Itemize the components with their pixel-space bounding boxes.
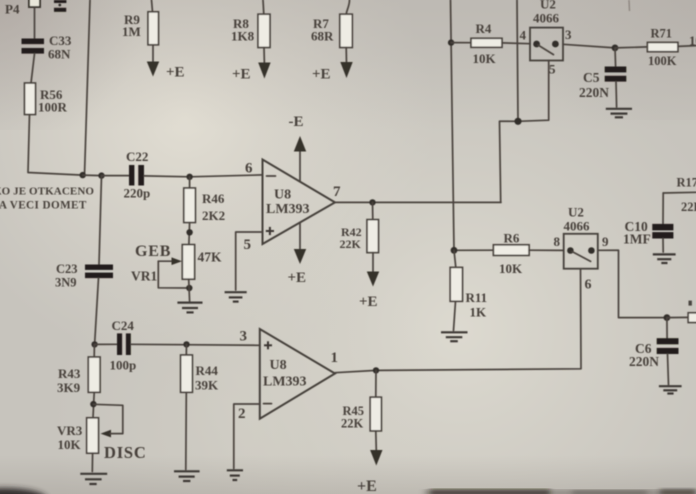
svg-text:22K: 22K xyxy=(340,237,362,251)
svg-text:100R: 100R xyxy=(38,100,68,115)
svg-text:R6: R6 xyxy=(504,231,520,246)
svg-text:LM393: LM393 xyxy=(263,375,307,390)
wire P4 to C33 xyxy=(34,7,36,39)
svg-text:68N: 68N xyxy=(48,47,71,62)
-E arrow above U8a xyxy=(289,114,307,182)
svg-text:C23: C23 xyxy=(56,262,78,276)
resistor R46 xyxy=(189,177,191,188)
svg-text:1MF: 1MF xyxy=(623,232,651,247)
svg-text:4066: 4066 xyxy=(533,11,560,26)
svg-text:10K: 10K xyxy=(499,261,523,276)
node C6 junction xyxy=(664,314,671,321)
capacitor C10 xyxy=(662,193,664,224)
potentiometer VR1 xyxy=(182,245,194,280)
potentiometer VR3 xyxy=(87,418,99,453)
analog switch U2b xyxy=(564,234,598,269)
connector P4 pad xyxy=(29,0,40,7)
+E arrow under R9 xyxy=(147,45,185,81)
svg-text:R4: R4 xyxy=(476,21,492,36)
op-amp U8b minus sign xyxy=(264,403,272,405)
wire C6 to ground xyxy=(668,354,669,385)
node R45 junction xyxy=(373,367,379,373)
svg-text:6: 6 xyxy=(245,161,253,177)
svg-text:1M: 1M xyxy=(122,24,141,39)
resistor R71 xyxy=(647,42,678,51)
resistor R7 xyxy=(346,0,349,14)
wire R11 to ground xyxy=(454,301,456,330)
svg-text:U8: U8 xyxy=(274,188,291,203)
wire node A to node B xyxy=(83,174,102,177)
crystal top-edge glyph xyxy=(54,0,66,12)
wire C10 to ground xyxy=(662,239,664,253)
svg-text:R17: R17 xyxy=(677,176,696,190)
svg-text:GEB: GEB xyxy=(135,243,171,260)
svg-text:U2: U2 xyxy=(568,205,584,220)
partial resistor at right edge xyxy=(688,313,696,323)
wire pin2 to ground xyxy=(234,404,260,469)
svg-text:ZA VECI DOMET: ZA VECI DOMET xyxy=(0,200,87,212)
svg-text:5: 5 xyxy=(549,62,556,77)
svg-text:220p: 220p xyxy=(124,186,151,201)
node R44-top junction xyxy=(183,341,189,347)
svg-text:+E: +E xyxy=(312,67,331,83)
svg-text:C24: C24 xyxy=(112,318,135,333)
wire C24 to op-amp pin3 xyxy=(131,344,260,345)
photo dark band bottom-right xyxy=(424,491,696,494)
+E arrow under R42 xyxy=(359,253,379,310)
wire vertical from top to pin5 node xyxy=(517,0,518,121)
node R46-top junction xyxy=(186,174,192,180)
svg-text:100K: 100K xyxy=(648,54,677,68)
VR1 wiper arrow xyxy=(158,257,189,288)
svg-text:100p: 100p xyxy=(110,358,137,373)
op-amp U8b xyxy=(260,329,335,419)
svg-text:+E: +E xyxy=(359,294,378,310)
svg-text:22K: 22K xyxy=(341,417,364,431)
svg-text:R11: R11 xyxy=(466,290,488,305)
svg-text:1: 1 xyxy=(331,350,339,366)
svg-text:3K9: 3K9 xyxy=(57,380,81,395)
svg-text:P4: P4 xyxy=(5,2,20,17)
svg-text:1K: 1K xyxy=(470,305,488,320)
wire R4 to switch pin4 xyxy=(502,42,530,45)
resistor R8 xyxy=(262,0,265,14)
svg-text:-E: -E xyxy=(289,114,304,130)
svg-text:+E: +E xyxy=(357,478,377,494)
op-amp U8b plus sign xyxy=(264,341,272,349)
ground under C10 xyxy=(653,254,676,263)
ground under C6 xyxy=(659,386,682,393)
svg-text:220N: 220N xyxy=(579,85,609,100)
capacitor C5 xyxy=(614,48,617,67)
svg-text:KO JE OTKACENO: KO JE OTKACENO xyxy=(0,186,94,198)
wire U8a output to corner xyxy=(335,201,501,203)
svg-text:10K: 10K xyxy=(58,437,82,452)
wire VR3 to ground xyxy=(91,453,93,471)
svg-text:39K: 39K xyxy=(195,378,219,393)
svg-text:+E: +E xyxy=(288,270,307,286)
wire R44 to ground xyxy=(185,392,188,469)
svg-text:C5: C5 xyxy=(583,70,600,85)
svg-text:2: 2 xyxy=(238,406,246,422)
svg-text:R43: R43 xyxy=(58,366,81,381)
resistor R56 xyxy=(25,83,36,115)
ground under R11 xyxy=(441,332,468,341)
svg-text:2K2: 2K2 xyxy=(202,208,225,223)
node R46-VR1 junction xyxy=(186,229,192,235)
wire R6 node to R6 xyxy=(454,249,493,251)
VR3 wiper arrow xyxy=(93,404,122,437)
svg-text:VR1: VR1 xyxy=(131,269,157,284)
ground at pin 2 xyxy=(227,470,243,480)
svg-text:3N9: 3N9 xyxy=(55,276,77,290)
capacitor C6 xyxy=(666,318,668,339)
wire C33 to R56 xyxy=(31,54,35,83)
svg-text:DISC: DISC xyxy=(104,443,147,462)
wire R43 to VR3 xyxy=(93,392,94,418)
wire switch pin9 to C6 node xyxy=(598,250,667,317)
svg-text:8: 8 xyxy=(554,234,561,249)
svg-text:R46: R46 xyxy=(202,191,225,206)
node R6-R11 junction xyxy=(451,247,458,254)
node output7 junction xyxy=(369,199,375,205)
photo shadow bottom-left corner xyxy=(0,488,47,494)
svg-text:U8: U8 xyxy=(270,358,287,373)
wire node to R71 xyxy=(615,47,647,48)
node pin5-bus junction xyxy=(514,118,521,125)
capacitor C33 xyxy=(22,39,45,54)
+E arrow below U8a xyxy=(288,223,307,287)
svg-text:LM393: LM393 xyxy=(266,202,310,217)
node C junction xyxy=(91,341,97,347)
svg-text:9: 9 xyxy=(602,234,609,249)
node C5 junction xyxy=(612,45,619,52)
svg-text:22K: 22K xyxy=(681,200,696,214)
partial mark above right edge resistor xyxy=(689,301,692,306)
svg-text:220N: 220N xyxy=(629,354,659,369)
wire R56 to node A xyxy=(28,115,83,176)
wire VR1 to ground xyxy=(188,279,191,301)
svg-text:68R: 68R xyxy=(311,29,334,44)
svg-text:6: 6 xyxy=(585,278,592,293)
wire U8b output to switch pin6 xyxy=(335,269,581,373)
node A junction xyxy=(80,172,86,178)
svg-text:R71: R71 xyxy=(651,27,673,41)
resistor R45 xyxy=(375,370,377,397)
svg-text:5: 5 xyxy=(244,237,252,253)
resistor R9 xyxy=(152,0,153,12)
resistor R44 xyxy=(185,344,187,355)
node R4-left junction xyxy=(448,39,454,45)
wire R6 to switch pin8 xyxy=(529,249,564,251)
+E arrow under R8 xyxy=(232,48,271,83)
svg-text:R44: R44 xyxy=(196,363,219,378)
node VR1 wiper-bottom junction xyxy=(186,285,192,291)
wire C22 to op-amp pin6 xyxy=(144,175,263,177)
resistor R42 xyxy=(372,202,374,219)
ground under VR1 xyxy=(177,303,202,313)
capacitor C23 xyxy=(99,176,102,265)
wire node C to C24 xyxy=(95,343,117,345)
resistor R6 xyxy=(493,245,529,256)
wire node B to C22 xyxy=(102,175,130,177)
wire node to right edge component xyxy=(667,316,688,318)
svg-text:10: 10 xyxy=(689,33,696,48)
svg-text:3: 3 xyxy=(240,329,248,345)
svg-text:3: 3 xyxy=(565,27,572,42)
svg-text:47K: 47K xyxy=(198,250,223,265)
resistor R11 xyxy=(454,250,456,267)
ground under VR3 xyxy=(80,474,107,484)
op-amp U8a xyxy=(263,160,336,245)
faint crease line top right xyxy=(628,0,631,11)
svg-text:4066: 4066 xyxy=(564,219,591,234)
wire switch pin3 to C5 node xyxy=(563,44,615,48)
wire vertical bus to R6 node xyxy=(451,0,455,250)
wire R46 to VR1 xyxy=(188,223,191,245)
wire C23 to node C xyxy=(95,278,99,344)
analog switch U2a xyxy=(530,28,563,61)
svg-text:10K: 10K xyxy=(473,51,497,66)
resistor R43 xyxy=(93,344,95,357)
op-amp U8a minus sign xyxy=(267,175,276,177)
ground under C5 xyxy=(606,109,632,118)
wire junction to R4 xyxy=(451,42,471,44)
capacitor C22 xyxy=(129,165,144,186)
+E arrow under R45 xyxy=(357,431,383,494)
op-amp U8a plus sign xyxy=(266,227,274,235)
wire switch pin5 to output net xyxy=(500,61,549,203)
svg-text:VR3: VR3 xyxy=(57,423,83,438)
wire R71 to right edge xyxy=(678,45,696,48)
wire C5 to ground xyxy=(615,82,618,107)
capacitor C24 xyxy=(117,333,131,355)
node R43-VR3 junction xyxy=(90,401,96,407)
svg-text:+E: +E xyxy=(232,67,251,83)
+E arrow under R7 xyxy=(312,48,353,83)
svg-text:C22: C22 xyxy=(126,149,148,164)
svg-text:7: 7 xyxy=(333,184,341,200)
node B junction xyxy=(98,172,104,178)
svg-text:1K8: 1K8 xyxy=(231,29,255,44)
resistor R4 xyxy=(471,38,502,47)
svg-text:+E: +E xyxy=(166,65,185,81)
wire long vertical from top to node A xyxy=(85,0,91,175)
ground under R44 xyxy=(174,471,200,481)
wire pin5 to ground xyxy=(236,232,263,290)
ground at pin 5 xyxy=(225,292,247,301)
svg-text:4: 4 xyxy=(520,28,527,43)
